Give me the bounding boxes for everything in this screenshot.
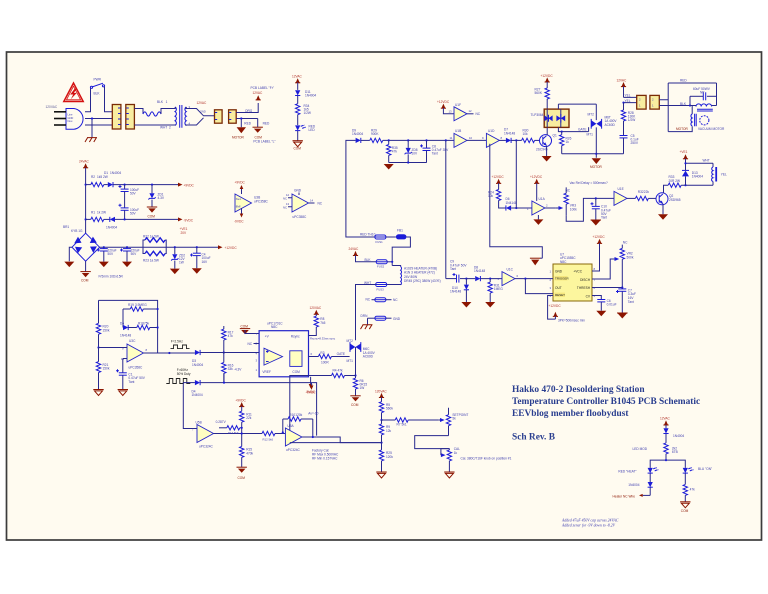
wire <box>297 96 299 104</box>
svg-text:RF Min 0.157VAC: RF Min 0.157VAC <box>312 456 338 460</box>
connector CON5 <box>637 95 646 109</box>
svg-text:470k: 470k <box>246 451 253 455</box>
power COM R6 <box>350 396 360 407</box>
svg-text:47k: 47k <box>392 149 398 153</box>
wire 12VAC down <box>623 86 625 97</box>
wire VR3 bottom loop to U1E <box>566 198 614 221</box>
resistor R13 5k <box>219 426 242 435</box>
vacuum motor M1 <box>700 116 709 125</box>
svg-text:12VAC: 12VAC <box>197 101 208 105</box>
power COM con4 <box>257 119 259 128</box>
wire VCC <box>592 243 600 271</box>
svg-text:1/2W: 1/2W <box>628 118 635 122</box>
svg-text:120VAC: 120VAC <box>375 389 387 393</box>
svg-text:11: 11 <box>450 136 453 140</box>
heater element HTR <box>400 267 403 286</box>
resistor R31 1MEG <box>485 278 503 308</box>
svg-text:47k: 47k <box>690 488 696 492</box>
wire snubber bottom <box>596 153 623 155</box>
power port +12VDC rail <box>218 245 237 250</box>
ground Q1 <box>542 156 552 162</box>
power port +12VDC U1F <box>437 100 450 108</box>
feedback wires R10 <box>283 419 313 437</box>
resistor R21 150k <box>96 346 110 389</box>
svg-text:4.3V: 4.3V <box>158 196 165 200</box>
svg-text:-9VDC: -9VDC <box>306 391 316 395</box>
bridge BR1 <box>63 225 100 261</box>
svg-text:3.9MEG: 3.9MEG <box>135 303 147 307</box>
capacitor C4 100uF <box>190 247 211 274</box>
svg-text:24VAC: 24VAC <box>349 247 360 251</box>
power port +9VDC R11 <box>235 398 246 406</box>
wire bridge bottom COM <box>85 261 87 271</box>
ground Q2 <box>658 204 668 220</box>
svg-text:1k 2W: 1k 2W <box>97 211 106 215</box>
connector CON1 <box>112 105 121 130</box>
svg-text:12VAC: 12VAC <box>253 91 264 95</box>
svg-text:50V: 50V <box>108 252 115 256</box>
wire triac MT1 down <box>355 347 357 376</box>
wire plug mid <box>85 118 113 120</box>
svg-text:MT2: MT2 <box>347 339 354 343</box>
svg-text:COM: COM <box>292 370 300 374</box>
resistor R26 1k <box>560 132 572 154</box>
wire Q2 collector to R33 <box>664 185 669 193</box>
wire BLK row <box>356 255 377 261</box>
zener ZD2 12V <box>170 247 186 274</box>
svg-text:R13: R13 <box>228 431 234 435</box>
resistor R6 0R15 <box>353 376 367 396</box>
svg-text:47k: 47k <box>338 369 344 373</box>
svg-text:BLK: BLK <box>365 258 372 262</box>
svg-text:1N4004: 1N4004 <box>192 393 203 397</box>
svg-text:GATE: GATE <box>578 127 586 131</box>
connector CON3 <box>215 110 223 123</box>
wire motor loop left vertical <box>667 83 669 132</box>
wire to chassis ground <box>91 119 93 138</box>
svg-text:Tant: Tant <box>601 216 607 220</box>
power port 24VAC <box>79 159 90 167</box>
svg-text:RED: RED <box>263 122 270 126</box>
svg-text:10k: 10k <box>523 132 529 136</box>
svg-text:ORG: ORG <box>245 109 253 113</box>
svg-text:NC: NC <box>623 241 628 245</box>
transformer T1 primary <box>175 107 176 125</box>
svg-text:+VE1: +VE1 <box>680 150 688 154</box>
wire Q1 emitter to ground <box>546 146 548 156</box>
svg-text:+9VDC: +9VDC <box>235 181 246 185</box>
svg-text:R3: R3 <box>320 351 324 355</box>
diode D11 1N4004 <box>295 90 316 98</box>
wire between caps <box>124 192 126 208</box>
wire 24VAC down to bridge <box>85 168 87 233</box>
diode D3 1N4004 <box>168 350 224 367</box>
power port 120VAC divider <box>375 389 387 397</box>
capacitor C9 tant <box>446 260 468 283</box>
svg-text:Temperature Controller B1045 P: Temperature Controller B1045 PCB Schemat… <box>512 397 700 407</box>
wire U6 pin4 <box>224 352 259 354</box>
wire heater RED riser <box>346 140 356 237</box>
wire plug bottom <box>85 124 113 126</box>
svg-text:0.287V: 0.287V <box>216 420 227 424</box>
svg-text:5k6: 5k6 <box>269 437 274 441</box>
svg-text:BLK 1: BLK 1 <box>157 100 168 104</box>
svg-text:900K: 900K <box>371 132 379 136</box>
diode D4 1N4004 <box>183 380 224 397</box>
svg-text:NC: NC <box>318 202 323 206</box>
pot SETPOINT <box>438 408 468 436</box>
svg-text:8Mf: 8Mf <box>236 205 241 209</box>
wire R33 to relay bottom <box>681 184 713 186</box>
svg-text:U3C: U3C <box>129 339 136 343</box>
svg-text:1N4148: 1N4148 <box>450 290 461 294</box>
svg-text:560K: 560K <box>535 91 543 95</box>
ground C1 <box>118 390 128 396</box>
svg-text:1N4004: 1N4004 <box>352 132 363 136</box>
wire RED top <box>668 82 716 84</box>
ground D9 bus <box>384 164 394 170</box>
svg-text:N8C: N8C <box>271 325 278 329</box>
svg-text:50% Duty: 50% Duty <box>177 372 191 376</box>
capacitor C12 100uF <box>119 185 140 196</box>
svg-text:3PK=500msec min: 3PK=500msec min <box>558 319 585 323</box>
power port 120VAC sync <box>310 306 322 314</box>
wire +9 rail <box>113 184 179 186</box>
svg-text:2SD965: 2SD965 <box>669 198 681 202</box>
svg-text:120VAC: 120VAC <box>310 306 322 310</box>
wire heater NC <box>643 494 651 496</box>
wire bridge left to ground <box>69 247 72 261</box>
power port +12VDC R24 <box>492 175 505 183</box>
diode D10 1N4148 <box>450 279 471 308</box>
svg-text:FB1: FB1 <box>397 228 403 232</box>
svg-text:R22 1a 5W: R22 1a 5W <box>143 235 159 239</box>
wire +in from C1 <box>123 359 127 373</box>
vacuum motor coil <box>691 114 692 126</box>
svg-text:MT1: MT1 <box>347 359 354 363</box>
waveform F=60Hz <box>166 368 191 384</box>
svg-text:1N4004: 1N4004 <box>692 175 703 179</box>
svg-text:5k6: 5k6 <box>234 431 239 435</box>
resistor R30 10k <box>511 129 539 143</box>
wire U1D input riser to gnd bar <box>490 144 543 258</box>
zener ZD8 10V <box>405 140 418 162</box>
svg-text:120k: 120k <box>386 455 393 459</box>
resistor R35 47k <box>387 140 398 162</box>
svg-text:50V: 50V <box>131 252 138 256</box>
svg-text:GATE: GATE <box>337 352 345 356</box>
wire loop to U5A out <box>224 373 317 435</box>
resistor R18 75k <box>128 321 159 329</box>
svg-text:N8C: N8C <box>560 260 567 264</box>
op-amp U1F <box>443 103 480 121</box>
wire to heater top <box>392 266 400 267</box>
capacitor C13 100uF <box>119 204 140 216</box>
svg-text:14: 14 <box>310 199 314 203</box>
wire BLK node <box>689 96 691 105</box>
svg-text:1k5 2W: 1k5 2W <box>97 175 108 179</box>
ground C7 <box>617 313 628 319</box>
svg-text:Sch Rev. B: Sch Rev. B <box>512 433 555 443</box>
svg-text:+12VDC: +12VDC <box>530 175 543 179</box>
mains plug P1 <box>66 109 83 130</box>
wire <box>297 115 299 126</box>
svg-text:10: 10 <box>469 136 473 140</box>
svg-text:7k5: 7k5 <box>320 321 325 325</box>
op-amp U3A spare <box>283 189 323 219</box>
svg-text:150k: 150k <box>103 328 110 332</box>
svg-text:PCB LABEL "L": PCB LABEL "L" <box>253 140 275 144</box>
pot VR3 100k <box>556 187 577 215</box>
svg-text:+12VDC: +12VDC <box>437 100 450 104</box>
ground bridge left <box>64 262 74 268</box>
svg-text:TLP3064: TLP3064 <box>531 113 544 117</box>
svg-text:Fr5mm 10Dx15R: Fr5mm 10Dx15R <box>99 275 124 279</box>
svg-text:10V: 10V <box>412 151 419 155</box>
op-amp U1E <box>614 187 635 205</box>
svg-text:R1: R1 <box>91 211 95 215</box>
wire relay top <box>686 162 714 164</box>
wire CON2 to transformer top with thermal fuse <box>134 109 143 115</box>
capacitor C3 220uF <box>120 247 140 267</box>
svg-text:uPC358C: uPC358C <box>293 215 308 219</box>
ground U1A <box>533 215 543 225</box>
svg-text:uPC324C: uPC324C <box>286 448 301 452</box>
power port +VE relay <box>680 150 689 163</box>
svg-text:YEL: YEL <box>721 173 727 177</box>
LED blue ON <box>683 467 712 484</box>
resistor R37 47k <box>683 484 695 501</box>
svg-text:1N4004: 1N4004 <box>110 171 121 175</box>
wire OUT branch <box>524 278 526 280</box>
svg-text:F=2.5Hz: F=2.5Hz <box>171 340 184 344</box>
svg-text:R4: R4 <box>333 369 337 373</box>
svg-text:OUT: OUT <box>555 286 562 290</box>
svg-text:Neu: Neu <box>68 119 73 123</box>
svg-text:WHT: WHT <box>703 159 710 163</box>
svg-text:+VCC: +VCC <box>573 270 582 274</box>
svg-text:-9VDC: -9VDC <box>184 218 194 222</box>
power port +9VDC <box>178 183 195 188</box>
svg-text:120VAC: 120VAC <box>46 105 58 109</box>
ground bar 555 <box>530 258 542 265</box>
power COM U6 <box>240 324 259 334</box>
svg-text:120k: 120k <box>295 413 302 417</box>
svg-text:75k: 75k <box>144 321 150 325</box>
power port 12VAC right <box>617 79 628 87</box>
svg-text:1k: 1k <box>566 140 570 144</box>
svg-text:DR45 (29C) 380W (43?E): DR45 (29C) 380W (43?E) <box>404 279 441 283</box>
svg-text:+12VDC: +12VDC <box>541 74 554 78</box>
wire fuse1 row <box>346 236 375 238</box>
svg-text:VREF: VREF <box>262 370 271 374</box>
svg-text:Heater NC Wire: Heater NC Wire <box>613 495 636 499</box>
capacitor C5 0.1uF 250V <box>620 134 639 154</box>
resistor R19 3.9MEG <box>123 303 159 311</box>
svg-text:AC60D: AC60D <box>363 355 374 359</box>
resistor R29 <box>361 129 383 143</box>
wire DISCH to VR2 wiper <box>592 259 615 279</box>
svg-text:16V: 16V <box>202 260 209 264</box>
LED red <box>295 125 316 133</box>
svg-text:+12VDC: +12VDC <box>593 235 606 239</box>
connector CON2 <box>126 105 135 130</box>
svg-text:RESET: RESET <box>555 293 565 297</box>
svg-text:47k: 47k <box>228 334 234 338</box>
svg-text:12: 12 <box>469 109 473 113</box>
capacitor C8 tant <box>420 140 449 162</box>
svg-text:RED TH10: RED TH10 <box>360 232 376 236</box>
capacitor C7 3.3uF tant <box>616 288 636 314</box>
svg-text:6TB: 6TB <box>672 450 678 454</box>
svg-text:Added zener for -9V down to -8: Added zener for -9V down to -8.2V <box>561 523 616 527</box>
resistor R24 10k <box>488 183 506 208</box>
zener ZD1 4.3V <box>148 185 165 207</box>
controller U6 uPC1701C <box>259 322 308 377</box>
plug prongs <box>54 112 66 125</box>
svg-text:R12: R12 <box>263 437 269 441</box>
wire WHT row <box>387 284 401 286</box>
power MOTOR triac <box>590 158 603 169</box>
svg-text:0.01uF: 0.01uF <box>607 303 617 307</box>
resistor R1 <box>86 211 106 222</box>
svg-text:-4.3V: -4.3V <box>234 367 242 371</box>
warning triangle W1 <box>64 83 83 102</box>
ground C10 <box>591 220 601 226</box>
svg-text:13: 13 <box>286 202 290 206</box>
feedback top wire <box>99 300 158 353</box>
svg-text:-9VDC: -9VDC <box>234 220 244 224</box>
svg-text:LED MOD: LED MOD <box>633 447 648 451</box>
diode D8 1N4148 <box>466 265 502 281</box>
wire motor bottom <box>668 126 692 131</box>
power COM led chain <box>293 141 303 151</box>
power COM led module <box>680 502 690 513</box>
svg-text:+12VDC: +12VDC <box>492 175 505 179</box>
wire FB1 to down <box>392 237 410 266</box>
resistor R4 47k <box>332 369 356 378</box>
connector CON4 <box>229 110 237 123</box>
fuse FUS1 <box>375 235 386 244</box>
choke coil horizontal <box>696 104 712 107</box>
diode D1 1N4004 <box>104 171 122 187</box>
svg-text:FUS1: FUS1 <box>376 240 384 244</box>
power COM R15 <box>237 467 247 480</box>
svg-text:MOTOR: MOTOR <box>590 165 603 169</box>
svg-text:1/2W: 1/2W <box>304 111 311 115</box>
svg-text:TRIGGER: TRIGGER <box>555 277 570 281</box>
timer U7 555 <box>550 252 596 301</box>
diode D14 1N4004 <box>663 425 684 443</box>
svg-text:Tant: Tant <box>628 300 634 304</box>
wire led split <box>650 460 685 468</box>
power port 24VAC heater <box>349 247 360 255</box>
svg-text:Cal. 380C/716F knob on positio: Cal. 380C/716F knob on position #1 <box>461 456 512 460</box>
wire CON2 to transformer bottom <box>134 124 172 126</box>
svg-text:COM: COM <box>148 215 156 219</box>
label NC U6 pin2 <box>248 342 260 346</box>
wire CON4 RED to MOTOR <box>236 118 258 120</box>
fuse FUS4 spare <box>366 298 399 303</box>
svg-text:22k: 22k <box>644 190 650 194</box>
svg-text:NC: NC <box>366 298 371 302</box>
svg-text:+9VDC: +9VDC <box>235 398 246 402</box>
connector CON6 <box>650 95 659 109</box>
capacitor C2 220uF <box>97 247 117 267</box>
svg-text:Q1: Q1 <box>553 134 557 138</box>
svg-text:1N4004: 1N4004 <box>628 483 639 487</box>
capacitor C1 tant <box>116 369 146 389</box>
svg-text:Av=-10: Av=-10 <box>308 411 318 415</box>
svg-text:100R: 100R <box>321 360 329 364</box>
fuse FUS5 gnd <box>361 314 401 321</box>
svg-text:GND: GND <box>200 110 206 114</box>
power port 12VAC motor <box>256 95 261 100</box>
svg-text:U5B: U5B <box>196 420 202 424</box>
resistor R25 120k <box>379 443 393 472</box>
svg-text:R7: R7 <box>397 423 401 427</box>
diode D13 flyback <box>682 163 703 185</box>
svg-text:R23 1a 5W: R23 1a 5W <box>143 259 159 263</box>
svg-text:COM: COM <box>294 147 302 151</box>
ground R21 <box>93 390 103 396</box>
svg-text:560k: 560k <box>386 407 393 411</box>
svg-text:U1B: U1B <box>455 129 461 133</box>
resistor R17 47k <box>222 326 234 353</box>
svg-text:U5A: U5A <box>287 424 294 428</box>
svg-text:NC: NC <box>283 206 287 210</box>
svg-text:MT2: MT2 <box>588 112 595 116</box>
diode D15 1N4004 <box>628 482 653 495</box>
svg-text:1N4148: 1N4148 <box>504 131 515 135</box>
relay K1 coil <box>712 163 727 185</box>
svg-text:RED: RED <box>680 79 687 83</box>
diode D6 1N4148 <box>506 197 517 210</box>
svg-text:1N4148: 1N4148 <box>120 333 131 337</box>
resistor R12 5k <box>262 431 285 441</box>
svg-text:Rsync=8.33ms sync: Rsync=8.33ms sync <box>310 336 336 340</box>
svg-text:NC: NC <box>283 197 287 201</box>
fuse FUS3 <box>376 283 387 292</box>
svg-text:NC: NC <box>566 189 571 193</box>
svg-text:BLK: BLK <box>94 92 101 96</box>
svg-text:1N4004: 1N4004 <box>106 226 117 230</box>
svg-text:1MEG: 1MEG <box>494 287 504 291</box>
svg-text:Rsync: Rsync <box>291 335 300 339</box>
op-amp U1D <box>482 129 506 147</box>
resistor R33 20R <box>668 175 681 187</box>
wire C9 riser <box>445 140 447 278</box>
svg-text:NP: NP <box>700 91 704 95</box>
ground CAL <box>444 472 454 478</box>
secondary wires merge <box>186 109 215 126</box>
wires CON6 to motor loop <box>659 100 668 106</box>
capacitor C14 60uF NP <box>690 87 717 100</box>
wire CV to C6 <box>592 296 601 300</box>
svg-text:U1C: U1C <box>507 268 514 272</box>
op-amp U1C <box>498 268 554 286</box>
svg-text:1N4004: 1N4004 <box>192 363 203 367</box>
svg-text:MOTOR: MOTOR <box>676 127 689 131</box>
svg-text:50V: 50V <box>130 192 137 196</box>
transformer T1 core <box>180 105 182 128</box>
transistor Q1 <box>536 134 557 152</box>
svg-text:5k1: 5k1 <box>402 423 407 427</box>
power port 12VAC led chain <box>295 78 300 83</box>
resistor R27 560K <box>535 82 550 109</box>
resistor R36 2k2 <box>664 443 678 460</box>
svg-text:24VAC: 24VAC <box>79 159 90 163</box>
